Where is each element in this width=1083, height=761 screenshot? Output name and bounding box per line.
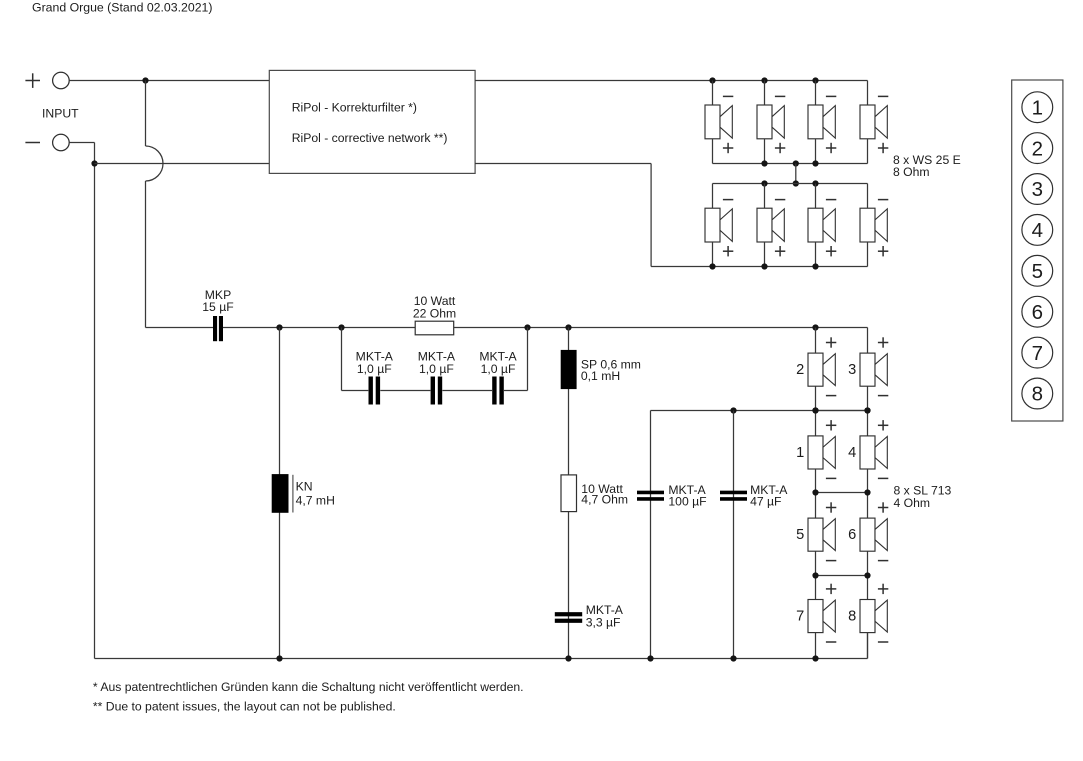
svg-text:5: 5 xyxy=(796,527,804,543)
capacitor C2 MKT-A 1,0 uF xyxy=(418,349,456,404)
junction to capacitor bank branch left xyxy=(338,324,344,330)
junction bottom rail sp1 xyxy=(709,263,715,269)
svg-text:8 Ohm: 8 Ohm xyxy=(893,165,930,179)
junction row1 bottom sp3 xyxy=(812,160,818,166)
svg-text:1: 1 xyxy=(796,445,804,461)
minus input terminal xyxy=(25,134,69,151)
inductor SP branch wire xyxy=(568,328,570,659)
upper bank row2 top rail xyxy=(713,183,868,185)
junction bottom SP branch xyxy=(565,655,571,661)
junction connector right xyxy=(864,572,870,578)
svg-text:4: 4 xyxy=(1032,219,1043,242)
svg-text:2: 2 xyxy=(1032,137,1043,160)
speaker WS25E #2 upper row xyxy=(757,81,785,164)
inductor SP 0,6 mm 0,1 mH xyxy=(561,350,641,389)
svg-text:4: 4 xyxy=(848,445,856,461)
svg-text:Grand Orgue (Stand 02.03.2021): Grand Orgue (Stand 02.03.2021) xyxy=(32,1,212,15)
svg-text:2: 2 xyxy=(796,362,804,378)
svg-text:4 Ohm: 4 Ohm xyxy=(894,496,931,510)
svg-text:3: 3 xyxy=(1032,178,1043,201)
junction row2 top sp2 xyxy=(761,180,767,186)
lower bank connector rail y=492.5 xyxy=(816,493,868,519)
junction top rail sp1 xyxy=(709,77,715,83)
upper bank label 8 x WS 25 E 8 Ohm xyxy=(893,153,961,179)
speaker WS25E #1 upper row xyxy=(705,81,733,164)
speaker WS25E #6 lower row xyxy=(757,184,785,267)
junction lower bank top left column xyxy=(812,324,818,330)
plus input terminal xyxy=(25,72,69,89)
wire minus terminal down left rail xyxy=(69,143,94,659)
wire from plus junction down with hop over minus wire xyxy=(146,81,214,328)
svg-text:22 Ohm: 22 Ohm xyxy=(413,306,456,320)
svg-text:KN: KN xyxy=(296,479,313,493)
speaker WS25E #8 lower row xyxy=(860,184,888,257)
inductor KN 4,7 mH branch wire xyxy=(279,328,281,659)
bottom rail xyxy=(95,633,868,659)
lower bank label 8 x SL 713 4 Ohm xyxy=(894,484,952,511)
svg-text:8: 8 xyxy=(1032,383,1043,406)
svg-text:6: 6 xyxy=(848,527,856,543)
svg-text:7: 7 xyxy=(796,609,804,625)
svg-text:* Aus patentrechtlichen Gründe: * Aus patentrechtlichen Gründen kann die… xyxy=(93,680,524,694)
junction bottom rail sp3 xyxy=(812,263,818,269)
junction mid rail right column xyxy=(864,407,870,413)
speaker WS25E #4 upper row xyxy=(860,96,888,163)
speaker SL713 #5 xyxy=(796,502,836,575)
wire MKP to resistor R1 xyxy=(223,327,415,329)
junction bottom 47uF xyxy=(730,655,736,661)
wire minus junction to RiPol box xyxy=(95,163,270,165)
junction connector left xyxy=(812,407,818,413)
svg-text:1,0 µF: 1,0 µF xyxy=(357,362,392,376)
svg-text:1,0 µF: 1,0 µF xyxy=(481,362,516,376)
lower bank right column top wire xyxy=(867,328,869,354)
svg-text:5: 5 xyxy=(1032,260,1043,283)
speaker SL713 #6 xyxy=(848,502,888,575)
speaker SL713 #1 xyxy=(796,420,836,492)
junction top rail sp3 xyxy=(812,77,818,83)
junction row2 top sp3 xyxy=(812,180,818,186)
wire plus terminal to RiPol box xyxy=(69,80,269,82)
upper bank top rail xyxy=(475,81,867,106)
junction on plus wire xyxy=(142,77,148,83)
svg-text:1,0 µF: 1,0 µF xyxy=(419,362,454,376)
junction row1 bottom link xyxy=(793,160,799,166)
lower bank connector rail y=410.5 xyxy=(816,411,868,436)
resistor R1 10 Watt 22 Ohm xyxy=(413,294,456,335)
junction capacitor bank branch right xyxy=(524,324,530,330)
capacitor MKP 15 uF xyxy=(202,288,233,341)
junction bottom left speaker column xyxy=(812,655,818,661)
capacitor MKT-A 100 uF xyxy=(637,483,707,508)
capacitor C3 MKT-A 1,0 uF xyxy=(479,349,517,404)
speaker SL713 #4 xyxy=(848,420,888,492)
junction row1 bottom sp2 xyxy=(761,160,767,166)
capacitor MKT-A 3,3 uF xyxy=(555,603,624,629)
capacitor C1 MKT-A 1,0 uF xyxy=(356,349,394,404)
mid rail to lower speaker bank xyxy=(651,411,868,659)
junction connector left xyxy=(812,489,818,495)
wire resistor R1 to lower speaker bank xyxy=(454,327,868,329)
junction connector right xyxy=(864,489,870,495)
svg-text:15 µF: 15 µF xyxy=(202,300,233,314)
junction on minus rail xyxy=(91,160,97,166)
svg-text:47 µF: 47 µF xyxy=(750,494,781,508)
RiPol box xyxy=(269,70,475,173)
junction top rail sp2 xyxy=(761,77,767,83)
junction inductor SP branch xyxy=(565,324,571,330)
series link between upper rows xyxy=(795,164,797,184)
speaker SL713 #7 xyxy=(796,584,836,659)
junction bottom KN xyxy=(276,655,282,661)
svg-text:3,3 µF: 3,3 µF xyxy=(586,615,621,629)
capacitor MKT-A 47 uF xyxy=(720,483,788,508)
lower bank connector rail y=575.5 xyxy=(816,576,868,600)
junction to inductor KN branch xyxy=(276,324,282,330)
wire RiPol minus output to upper bank bottom rail xyxy=(475,164,651,267)
junction bottom rail sp2 xyxy=(761,263,767,269)
svg-text:1: 1 xyxy=(1032,96,1043,119)
junction 47uF branch top xyxy=(730,407,736,413)
svg-text:3: 3 xyxy=(848,362,856,378)
terminal block with outputs 1-8 xyxy=(1012,80,1063,421)
junction connector left xyxy=(812,572,818,578)
lower bank left column top wire xyxy=(815,328,817,354)
svg-text:100 µF: 100 µF xyxy=(668,494,706,508)
svg-text:4,7 mH: 4,7 mH xyxy=(296,493,335,507)
junction row2 top link xyxy=(793,180,799,186)
resistor R2 10 Watt 4,7 Ohm xyxy=(561,475,628,512)
speaker SL713 #2 xyxy=(796,337,836,410)
capacitor MKT-A 47 uF branch wire xyxy=(733,411,735,659)
upper bank bottom rail xyxy=(651,242,867,267)
branch wire for three MKT-A capacitors xyxy=(342,328,528,391)
speaker SL713 #8 xyxy=(848,584,888,659)
svg-text:INPUT: INPUT xyxy=(42,107,79,121)
inductor KN 4,7 mH xyxy=(272,474,335,513)
speaker WS25E #3 upper row xyxy=(808,81,836,164)
svg-text:** Due to patent issues, the l: ** Due to patent issues, the layout can … xyxy=(93,699,396,713)
speaker SL713 #3 xyxy=(848,337,888,410)
svg-text:6: 6 xyxy=(1032,301,1043,324)
speaker WS25E #7 lower row xyxy=(808,184,836,267)
junction mid rail left column xyxy=(812,407,818,413)
svg-text:0,1 mH: 0,1 mH xyxy=(581,369,620,383)
svg-text:8: 8 xyxy=(848,609,856,625)
upper bank row1 bottom rail xyxy=(713,163,868,165)
speaker WS25E #5 lower row xyxy=(705,184,733,267)
svg-text:7: 7 xyxy=(1032,342,1043,365)
junction bottom 100uF xyxy=(647,655,653,661)
svg-text:4,7 Ohm: 4,7 Ohm xyxy=(581,493,628,507)
svg-text:RiPol - Korrekturfilter *): RiPol - Korrekturfilter *) xyxy=(292,101,417,115)
junction connector right xyxy=(864,407,870,413)
svg-text:RiPol - corrective network **): RiPol - corrective network **) xyxy=(292,131,448,145)
